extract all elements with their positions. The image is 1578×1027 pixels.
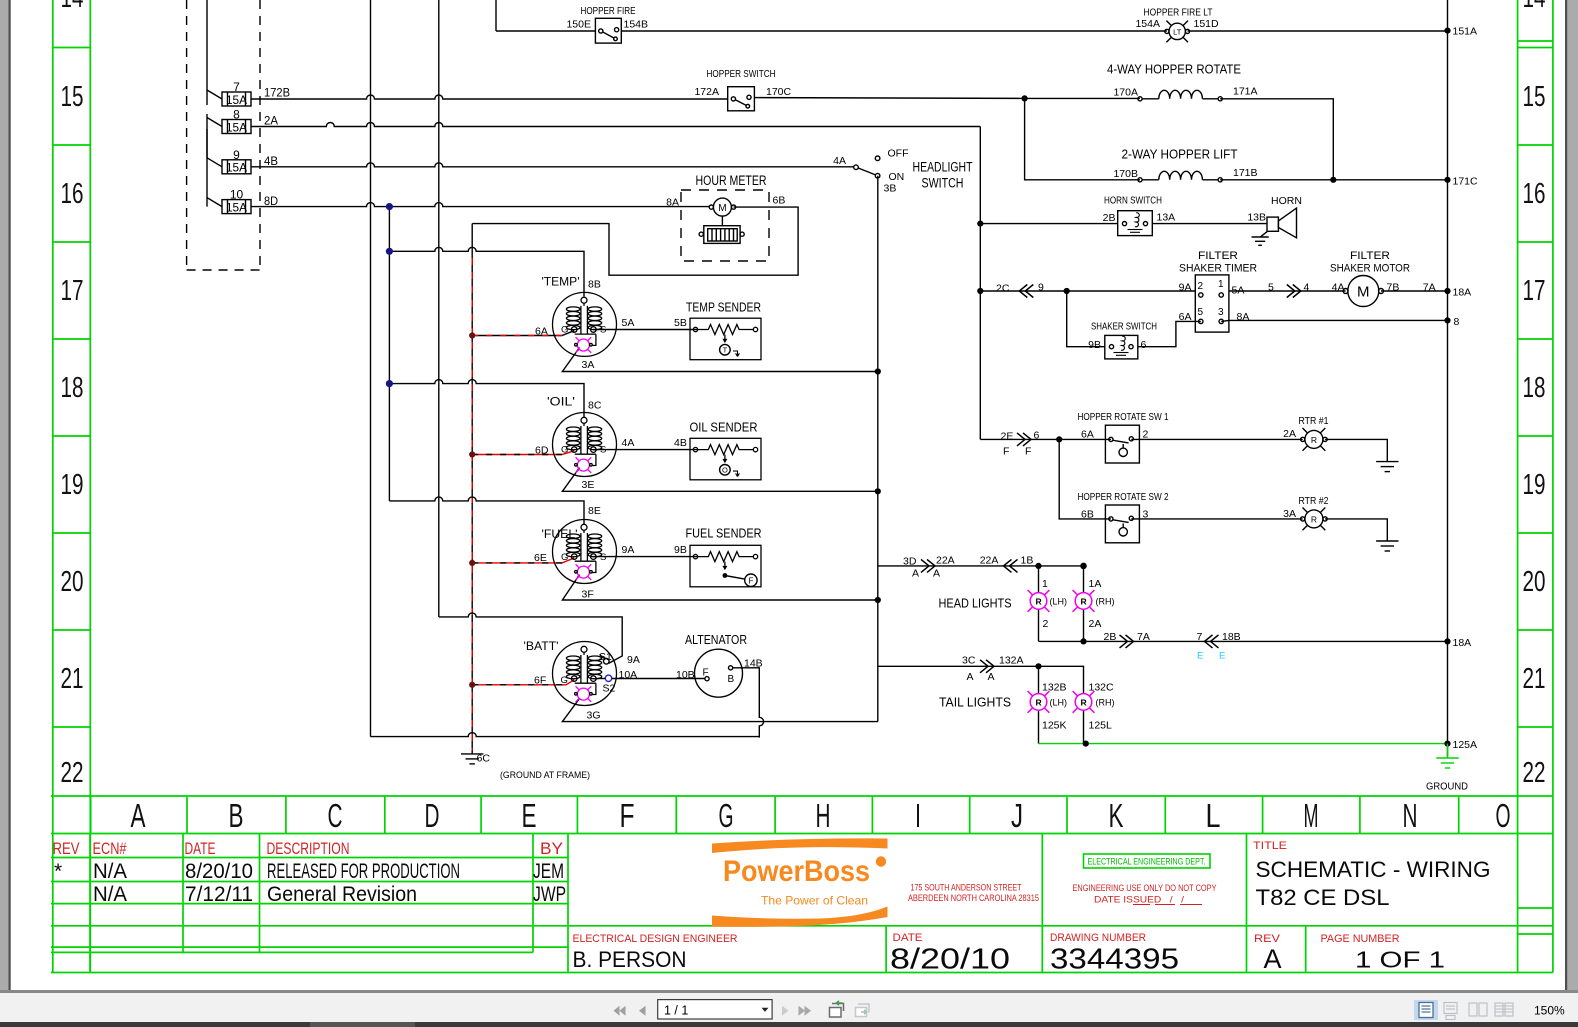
svg-text:4A: 4A <box>833 155 846 167</box>
svg-text:18: 18 <box>1523 372 1546 404</box>
svg-text:F: F <box>620 797 635 834</box>
svg-text:A: A <box>933 568 940 580</box>
node 3A <box>875 368 881 374</box>
gauge BATT <box>553 642 617 706</box>
svg-text:I: I <box>915 797 921 834</box>
svg-text:F: F <box>1025 446 1031 458</box>
svg-text:171C: 171C <box>1453 176 1479 188</box>
svg-text:1 OF 1: 1 OF 1 <box>1355 947 1445 973</box>
svg-text:3344395: 3344395 <box>1050 944 1179 976</box>
svg-text:ELECTRICAL DESIGN ENGINEER: ELECTRICAL DESIGN ENGINEER <box>573 933 738 945</box>
splice 5-4 <box>1287 285 1301 298</box>
svg-text:*: * <box>54 860 62 883</box>
svg-text:6: 6 <box>1141 339 1147 351</box>
wire 10A-10B <box>612 678 705 680</box>
svg-text:(RH): (RH) <box>1096 597 1115 607</box>
sender TEMP <box>690 318 761 360</box>
bus C vertical net 9 <box>438 0 440 617</box>
svg-text:G: G <box>561 325 568 336</box>
svg-text:F: F <box>703 668 709 679</box>
svg-text:C: C <box>328 797 343 834</box>
svg-text:2: 2 <box>1143 429 1149 441</box>
motor filter shaker <box>1343 276 1383 307</box>
fuse F8 15A <box>207 118 251 134</box>
svg-text:22A: 22A <box>980 555 999 567</box>
bulb taillight LH <box>1028 691 1050 713</box>
svg-text:OFF: OFF <box>888 148 909 160</box>
svg-text:(LH): (LH) <box>1050 597 1068 607</box>
splice 2E-6 <box>1017 433 1031 446</box>
svg-text:154A: 154A <box>1135 18 1160 30</box>
svg-text:A: A <box>1264 944 1282 974</box>
ground right green <box>1436 744 1458 768</box>
wire 170B-171B 2way <box>1025 98 1448 179</box>
svg-text:B. PERSON: B. PERSON <box>573 947 687 972</box>
fuse supply bus <box>206 0 208 207</box>
wire 2A <box>251 123 980 127</box>
wire 8A-8 <box>1221 320 1447 321</box>
svg-text:ON: ON <box>889 171 905 183</box>
wire 8E <box>389 497 584 524</box>
svg-text:M: M <box>718 203 726 214</box>
title block content <box>53 839 1491 976</box>
node 151A <box>1444 28 1450 34</box>
svg-text:171A: 171A <box>1233 86 1258 98</box>
svg-text:2C: 2C <box>996 283 1010 295</box>
splice 2C <box>1019 285 1033 298</box>
switch horn <box>1118 211 1153 236</box>
svg-text:17: 17 <box>61 275 84 307</box>
svg-text:9A: 9A <box>622 544 635 556</box>
wire shaker switch <box>1067 291 1201 347</box>
svg-text:22: 22 <box>1523 757 1546 789</box>
svg-text:2: 2 <box>1198 281 1204 292</box>
svg-text:HOUR METER: HOUR METER <box>696 173 767 188</box>
node 2C <box>977 288 983 294</box>
svg-text:F: F <box>1003 446 1009 458</box>
svg-text:6A: 6A <box>1081 429 1094 441</box>
svg-text:2B: 2B <box>1104 631 1117 643</box>
svg-text:21: 21 <box>1523 663 1546 695</box>
zone labels <box>61 0 1546 789</box>
svg-text:S: S <box>600 325 606 336</box>
splice 3C-132A <box>980 660 994 673</box>
svg-text:7/12/11: 7/12/11 <box>185 883 253 906</box>
wire 2E feed <box>980 439 1387 461</box>
svg-text:FUEL SENDER: FUEL SENDER <box>686 526 762 541</box>
svg-text:8/20/10: 8/20/10 <box>185 860 253 883</box>
svg-text:(RH): (RH) <box>1096 698 1115 708</box>
svg-text:3G: 3G <box>587 710 601 722</box>
node 125L <box>1083 741 1089 747</box>
svg-text:1B: 1B <box>1021 555 1034 567</box>
ground bus bottom <box>371 733 760 737</box>
svg-text:4-WAY HOPPER ROTATE: 4-WAY HOPPER ROTATE <box>1107 62 1241 77</box>
svg-text:A: A <box>131 797 146 834</box>
svg-text:RTR #1: RTR #1 <box>1299 415 1329 427</box>
svg-text:HEADLIGHT: HEADLIGHT <box>913 160 973 175</box>
svg-text:SHAKER MOTOR: SHAKER MOTOR <box>1330 263 1410 275</box>
svg-text:2E: 2E <box>1001 431 1014 443</box>
svg-text:1: 1 <box>1042 578 1048 590</box>
fuse F9 15A <box>207 129 251 174</box>
bulb headlight LH <box>1028 590 1050 612</box>
svg-text:6D: 6D <box>535 445 549 457</box>
switch hopper fire <box>595 18 621 43</box>
svg-text:8E: 8E <box>588 505 601 517</box>
svg-text:H: H <box>816 797 831 834</box>
svg-text:D: D <box>425 797 440 834</box>
svg-text:O: O <box>722 466 728 475</box>
svg-text:3: 3 <box>1143 509 1149 521</box>
node shaker tee <box>1064 288 1070 294</box>
svg-text:7: 7 <box>1197 631 1203 643</box>
svg-text:8B: 8B <box>588 279 601 291</box>
svg-text:6C: 6C <box>477 753 491 765</box>
svg-text:4B: 4B <box>674 437 687 449</box>
svg-text:'FUEL': 'FUEL' <box>542 527 578 541</box>
svg-text:A: A <box>988 671 995 683</box>
horn <box>1252 208 1297 245</box>
svg-text:HORN SWITCH: HORN SWITCH <box>1104 195 1162 207</box>
svg-text:S2: S2 <box>603 683 616 695</box>
svg-text:LT: LT <box>1173 28 1182 37</box>
tail light drops <box>1039 711 1084 744</box>
wire 3A <box>562 348 877 372</box>
svg-text:7A: 7A <box>1423 282 1436 294</box>
switch hopper <box>728 87 755 111</box>
svg-text:5: 5 <box>1268 282 1274 294</box>
svg-text:20: 20 <box>61 566 84 598</box>
svg-text:O: O <box>1496 797 1511 834</box>
svg-text:L: L <box>1206 797 1221 834</box>
svg-text:19: 19 <box>61 469 84 501</box>
svg-text:SCHEMATIC - WIRING: SCHEMATIC - WIRING <box>1256 857 1491 882</box>
splice 2B-7A <box>1120 635 1134 648</box>
wire 3C-132A <box>878 666 1084 693</box>
svg-text:8/20/10: 8/20/10 <box>890 944 1010 976</box>
bulb headlight RH <box>1073 590 1095 612</box>
svg-text:14B: 14B <box>744 658 763 670</box>
svg-text:20: 20 <box>1523 566 1546 598</box>
node 6A <box>469 332 475 338</box>
svg-text:J: J <box>1011 797 1023 834</box>
switch hopper rotate sw2 <box>1105 505 1139 543</box>
svg-text:172B: 172B <box>264 86 290 100</box>
gauge FUEL <box>553 520 617 584</box>
node 18A <box>1444 638 1450 644</box>
svg-text:4B: 4B <box>264 154 278 168</box>
svg-text:F: F <box>748 576 753 585</box>
svg-text:6F: 6F <box>534 675 546 687</box>
svg-text:6A: 6A <box>535 326 548 338</box>
svg-text:'OIL': 'OIL' <box>547 395 575 409</box>
wire 6A <box>472 331 574 336</box>
node 8B <box>386 248 393 255</box>
svg-text:JEM: JEM <box>533 860 564 883</box>
gauge OIL <box>553 413 617 477</box>
svg-text:TITLE: TITLE <box>1253 840 1287 852</box>
ground rtr1 <box>1376 462 1398 472</box>
wire 8C <box>389 380 584 417</box>
svg-text:15A: 15A <box>226 161 247 175</box>
svg-text:6: 6 <box>1034 430 1040 442</box>
svg-text:175 SOUTH ANDERSON STREET: 175 SOUTH ANDERSON STREET <box>911 883 1022 894</box>
svg-text:E: E <box>522 797 537 834</box>
svg-text:(LH): (LH) <box>1050 698 1068 708</box>
ground rtr2 <box>1376 541 1398 551</box>
svg-text:18A: 18A <box>1453 637 1472 649</box>
svg-text:132A: 132A <box>999 655 1024 667</box>
svg-text:15A: 15A <box>226 93 247 107</box>
ground 6C <box>461 754 483 764</box>
svg-text:N: N <box>1403 797 1418 834</box>
svg-text:K: K <box>1109 797 1124 834</box>
wire 3F <box>562 575 877 600</box>
svg-text:R: R <box>1311 435 1317 445</box>
svg-text:6B: 6B <box>773 195 786 207</box>
svg-text:7B: 7B <box>1387 282 1400 294</box>
svg-text:18B: 18B <box>1222 631 1241 643</box>
svg-text:170C: 170C <box>766 86 792 98</box>
svg-text:S: S <box>600 552 606 563</box>
sender FUEL <box>690 545 761 587</box>
svg-text:5: 5 <box>1198 307 1204 318</box>
svg-text:HOPPER ROTATE SW 1: HOPPER ROTATE SW 1 <box>1078 411 1169 423</box>
svg-text:R: R <box>1311 515 1317 525</box>
svg-text:SWITCH: SWITCH <box>922 176 964 191</box>
splice 7-18B <box>1205 635 1219 648</box>
wire 9A batt <box>439 613 622 663</box>
node 8 <box>1444 317 1450 323</box>
svg-text:PAGE NUMBER: PAGE NUMBER <box>1321 933 1400 945</box>
svg-text:SHAKER TIMER: SHAKER TIMER <box>1179 263 1257 275</box>
svg-text:'BATT': 'BATT' <box>524 639 559 653</box>
svg-text:19: 19 <box>1523 469 1546 501</box>
svg-text:RELEASED FOR PRODUCTION: RELEASED FOR PRODUCTION <box>267 860 460 883</box>
sender OIL <box>690 438 761 480</box>
wire 125 green <box>1039 743 1448 745</box>
relay RTR2 <box>1301 508 1328 531</box>
wire 170C <box>754 97 1024 100</box>
node 2E <box>1056 436 1062 442</box>
svg-text:S1: S1 <box>599 651 612 663</box>
svg-text:18A: 18A <box>1453 287 1472 299</box>
svg-text:10A: 10A <box>619 669 638 681</box>
svg-text:HOPPER FIRE: HOPPER FIRE <box>581 5 636 17</box>
wire 8D-8A <box>251 203 710 207</box>
node 171B <box>1330 177 1336 183</box>
svg-text:4A: 4A <box>622 437 635 449</box>
svg-text:8A: 8A <box>666 197 679 209</box>
node 1A <box>1080 563 1087 570</box>
svg-text:8C: 8C <box>588 400 602 412</box>
svg-text:DRAWING NUMBER: DRAWING NUMBER <box>1050 932 1146 944</box>
svg-text:4: 4 <box>1304 282 1310 294</box>
svg-text:HOPPER SWITCH: HOPPER SWITCH <box>707 68 776 80</box>
wire 2B-7A-18B <box>1039 640 1448 642</box>
svg-text:FILTER: FILTER <box>1350 250 1390 262</box>
svg-text:7A: 7A <box>1137 631 1150 643</box>
alternator <box>695 649 743 697</box>
wire 3G <box>562 699 877 722</box>
svg-text:14: 14 <box>61 0 84 14</box>
wire 2B horn <box>980 223 1267 225</box>
svg-text:132C: 132C <box>1089 682 1115 694</box>
relay RTR1 <box>1301 428 1328 451</box>
svg-text:21: 21 <box>61 663 84 695</box>
svg-text:2A: 2A <box>1283 428 1296 440</box>
wire 2A drop vertical <box>979 127 981 440</box>
svg-text:13B: 13B <box>1247 212 1266 224</box>
svg-text:125A: 125A <box>1453 739 1478 751</box>
node 3F <box>875 597 881 603</box>
svg-text:2-WAY HOPPER LIFT: 2-WAY HOPPER LIFT <box>1122 147 1238 162</box>
fuse panel dashed box <box>187 0 260 270</box>
svg-text:E: E <box>1197 651 1203 662</box>
headlight ON drop <box>877 176 879 722</box>
hour meter <box>681 190 769 261</box>
hopper fire feed vertical <box>495 0 497 31</box>
svg-text:6B: 6B <box>1081 509 1094 521</box>
svg-text:S: S <box>600 445 606 456</box>
svg-text:HEAD LIGHTS: HEAD LIGHTS <box>939 596 1012 611</box>
svg-text:132B: 132B <box>1042 682 1067 694</box>
svg-text:REV: REV <box>53 839 80 858</box>
svg-text:M: M <box>1304 797 1319 834</box>
svg-text:150%: 150% <box>1534 1004 1565 1018</box>
svg-text:N/A: N/A <box>93 860 127 883</box>
wire 6B sw2 <box>1059 439 1387 541</box>
wire 170A-171A 4way <box>1025 98 1334 179</box>
bulb taillight RH <box>1073 691 1095 713</box>
wire 6D <box>472 451 574 455</box>
svg-text:DATE: DATE <box>185 839 216 858</box>
svg-text:6E: 6E <box>534 552 547 564</box>
svg-text:15: 15 <box>1523 81 1546 113</box>
node 132A <box>1035 663 1041 669</box>
wire 14B <box>733 668 764 738</box>
svg-text:2: 2 <box>1043 618 1049 630</box>
fuse F10 15A <box>207 198 251 214</box>
wire 3E <box>562 468 877 492</box>
svg-text:9: 9 <box>1038 282 1044 294</box>
svg-text:1: 1 <box>1218 279 1224 290</box>
svg-text:ELECTRICAL ENGINEERING DEPT.: ELECTRICAL ENGINEERING DEPT. <box>1088 857 1206 867</box>
svg-text:18: 18 <box>61 372 84 404</box>
svg-text:A: A <box>912 568 919 580</box>
wire 9A-9B fuel <box>593 556 697 558</box>
node 2B <box>977 221 983 227</box>
node 6E <box>469 560 475 566</box>
svg-text:5A: 5A <box>1232 285 1245 297</box>
switch headlight <box>854 156 880 178</box>
wire 6F <box>472 680 574 685</box>
svg-text:'TEMP': 'TEMP' <box>542 275 580 289</box>
svg-text:15A: 15A <box>226 120 247 134</box>
head light drops <box>1039 566 1084 642</box>
node 8D <box>386 203 393 210</box>
wire 4A-4B oil <box>593 449 697 451</box>
svg-text:E: E <box>1219 651 1225 662</box>
svg-text:RTR #2: RTR #2 <box>1299 495 1329 507</box>
svg-text:G: G <box>561 552 568 563</box>
node 3E <box>875 488 881 494</box>
timer filter shaker <box>1195 275 1229 332</box>
wire 8B <box>389 247 584 296</box>
svg-text:ALTENATOR: ALTENATOR <box>685 632 747 647</box>
svg-text:8D: 8D <box>264 194 278 208</box>
svg-text:171B: 171B <box>1233 167 1258 179</box>
svg-text:5B: 5B <box>674 317 687 329</box>
svg-text:125K: 125K <box>1042 720 1067 732</box>
svg-text:172A: 172A <box>694 86 719 98</box>
svg-text:2A: 2A <box>264 114 278 128</box>
svg-text:JWP: JWP <box>533 883 566 906</box>
svg-text:9A: 9A <box>627 654 640 666</box>
svg-text:150E: 150E <box>566 19 591 31</box>
svg-text:General Revision: General Revision <box>267 883 417 906</box>
svg-text:HORN: HORN <box>1271 195 1302 207</box>
svg-text:16: 16 <box>61 178 84 210</box>
svg-text:125L: 125L <box>1089 720 1113 732</box>
svg-text:6A: 6A <box>1179 311 1192 323</box>
svg-text:13A: 13A <box>1157 212 1176 224</box>
svg-text:15A: 15A <box>226 200 247 214</box>
schematic labels <box>226 5 1478 793</box>
svg-text:G: G <box>561 445 568 456</box>
coil 2way hopper lift <box>1138 171 1222 182</box>
svg-text:17: 17 <box>1523 275 1546 307</box>
wire 5A-5B temp <box>593 329 697 331</box>
svg-text:(GROUND AT FRAME): (GROUND AT FRAME) <box>500 770 590 780</box>
gauge TEMP <box>553 292 617 356</box>
svg-text:3E: 3E <box>582 479 595 491</box>
svg-text:154B: 154B <box>624 19 649 31</box>
svg-text:10B: 10B <box>676 669 695 681</box>
wire 6B return loop <box>472 207 798 275</box>
svg-text:BY: BY <box>540 839 563 858</box>
svg-text:1A: 1A <box>1089 578 1102 590</box>
net 6 red-dashed vertical <box>471 224 473 754</box>
wire 4B-4A <box>251 163 854 167</box>
svg-text:2A: 2A <box>1089 618 1102 630</box>
ground bus A vertical <box>370 0 372 737</box>
node 6F <box>469 682 475 688</box>
svg-text:T82 CE DSL: T82 CE DSL <box>1256 885 1390 910</box>
node 6D <box>469 451 475 457</box>
node 171C <box>1444 177 1450 183</box>
svg-text:9A: 9A <box>1179 282 1192 294</box>
svg-text:ECN#: ECN# <box>93 839 127 858</box>
node 125A <box>1444 741 1450 747</box>
node 8C <box>386 380 393 387</box>
svg-text:8A: 8A <box>1237 311 1250 323</box>
svg-text:OIL SENDER: OIL SENDER <box>690 420 758 435</box>
svg-text:15: 15 <box>61 81 84 113</box>
svg-text:ENGINEERING USE ONLY DO NOT CO: ENGINEERING USE ONLY DO NOT COPY <box>1073 883 1218 894</box>
svg-text:22A: 22A <box>936 555 955 567</box>
switch shaker <box>1105 335 1138 359</box>
svg-text:9B: 9B <box>674 544 687 556</box>
svg-text:3D: 3D <box>903 556 917 568</box>
wire 2C-9A timer <box>980 290 1447 292</box>
right bus vertical <box>1447 0 1449 757</box>
svg-text:1 / 1: 1 / 1 <box>664 1004 688 1018</box>
svg-text:ABERDEEN NORTH CAROLINA 28315: ABERDEEN NORTH CAROLINA 28315 <box>908 893 1039 904</box>
svg-text:TEMP SENDER: TEMP SENDER <box>686 300 761 315</box>
svg-text:M: M <box>1357 284 1370 301</box>
